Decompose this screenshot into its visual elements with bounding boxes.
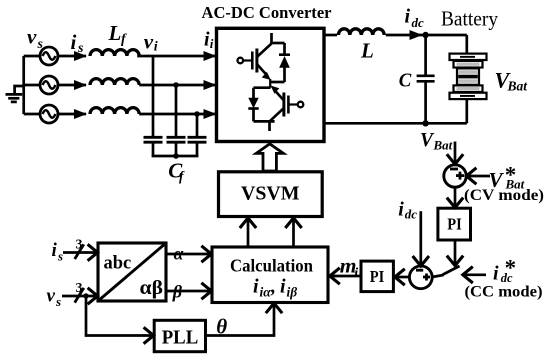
- svg-text:i: i: [493, 262, 499, 284]
- svg-text:(CC mode): (CC mode): [465, 284, 543, 301]
- svg-text:v: v: [47, 286, 56, 307]
- svg-text:Bat: Bat: [507, 79, 529, 94]
- svg-text:i: i: [405, 6, 411, 28]
- svg-text:iα: iα: [260, 285, 272, 300]
- svg-text:i: i: [52, 240, 58, 261]
- svg-text:αβ: αβ: [140, 277, 164, 299]
- svg-text:PI: PI: [447, 215, 462, 234]
- svg-text:Battery: Battery: [441, 7, 498, 31]
- svg-text:dc: dc: [405, 207, 418, 222]
- svg-text:i: i: [71, 30, 77, 54]
- svg-text:PI: PI: [370, 267, 385, 286]
- svg-text:PLL: PLL: [162, 327, 199, 348]
- svg-text:i: i: [354, 266, 358, 281]
- svg-text:iβ: iβ: [287, 285, 298, 300]
- svg-text:θ: θ: [216, 314, 227, 338]
- svg-text:,: ,: [270, 276, 276, 298]
- svg-text:v: v: [27, 25, 37, 49]
- svg-text:f: f: [179, 169, 185, 184]
- svg-text:s: s: [37, 37, 44, 52]
- svg-text:i: i: [398, 199, 404, 221]
- svg-text:α: α: [174, 243, 184, 263]
- svg-text:i: i: [280, 276, 286, 298]
- svg-text:f: f: [121, 32, 127, 47]
- svg-text:AC-DC Converter: AC-DC Converter: [202, 3, 332, 22]
- svg-text:3: 3: [76, 281, 83, 296]
- svg-text:dc: dc: [412, 15, 425, 30]
- svg-text:v: v: [144, 30, 154, 54]
- svg-text:s: s: [55, 294, 61, 309]
- svg-text:s: s: [77, 41, 84, 56]
- svg-text:*: *: [505, 255, 516, 280]
- svg-text:L: L: [360, 38, 374, 62]
- svg-text:i: i: [154, 40, 158, 55]
- svg-text:s: s: [57, 249, 63, 264]
- svg-text:Bat: Bat: [433, 138, 453, 153]
- svg-text:Calculation: Calculation: [230, 255, 313, 275]
- svg-text:3: 3: [76, 238, 83, 253]
- svg-text:(CV mode): (CV mode): [464, 187, 544, 204]
- svg-text:*: *: [505, 162, 517, 187]
- svg-text:i: i: [210, 36, 214, 51]
- svg-text:i: i: [253, 276, 259, 298]
- svg-text:abc: abc: [104, 254, 132, 274]
- svg-text:L: L: [108, 21, 122, 45]
- svg-text:C: C: [399, 69, 412, 91]
- svg-text:β: β: [172, 281, 183, 301]
- svg-text:VSVM: VSVM: [241, 182, 300, 204]
